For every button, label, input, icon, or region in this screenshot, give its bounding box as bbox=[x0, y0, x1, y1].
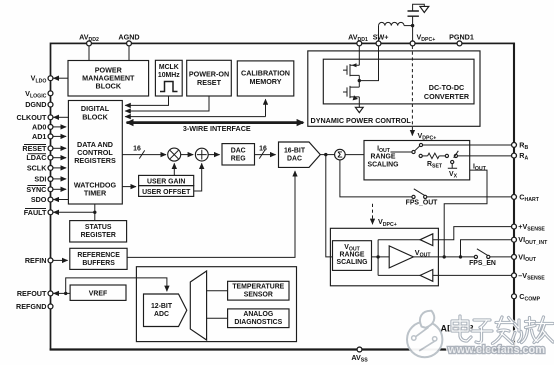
op-amp VOUT driver bbox=[389, 246, 413, 268]
svg-text:BLOCK: BLOCK bbox=[82, 112, 108, 121]
pin -VSENSE bbox=[512, 273, 517, 278]
wire Q1 source to node bbox=[358, 75, 360, 80]
svg-text:16: 16 bbox=[133, 146, 141, 153]
chip border bottom edge (thick) bbox=[50, 348, 515, 350]
reference buffers block bbox=[70, 248, 127, 269]
wire amplifier output bbox=[413, 256, 474, 258]
power management block bbox=[68, 61, 149, 97]
svg-text:10MHz: 10MHz bbox=[158, 72, 180, 79]
svg-text:SCALING: SCALING bbox=[367, 161, 398, 168]
node REFOUT junction bbox=[64, 292, 67, 295]
chip border bbox=[51, 43, 515, 349]
pin LDAC (active low) bbox=[48, 155, 53, 160]
calibration memory block bbox=[237, 61, 293, 96]
buffer +VSENSE (left-pointing) bbox=[420, 234, 433, 246]
svg-text:DIAGNOSTICS: DIAGNOSTICS bbox=[234, 319, 282, 326]
bus width slash 16 bbox=[259, 150, 264, 158]
pin VIOUT bbox=[512, 254, 517, 259]
dashed VDPC+ supply line into iout range scaling bbox=[411, 46, 413, 135]
wire SCLK pin to digital block bbox=[53, 167, 66, 169]
svg-text:BLOCK: BLOCK bbox=[96, 82, 122, 91]
capacitor CDPC bbox=[412, 16, 414, 25]
svg-text:REG: REG bbox=[231, 155, 246, 162]
svg-text:AGND: AGND bbox=[118, 33, 139, 42]
node VX bbox=[451, 160, 454, 163]
node DAC output junction bbox=[324, 153, 327, 156]
svg-text:TIMER: TIMER bbox=[84, 188, 107, 197]
wire AD1 pin to digital block bbox=[53, 135, 66, 137]
bus width slash 16 bbox=[139, 150, 144, 158]
wire switch to RA pin bbox=[458, 155, 515, 157]
wire digital block to user gain/offset bbox=[122, 186, 136, 188]
wire FPS_OUT switch to CHART pin bbox=[427, 196, 514, 198]
svg-text:3-WIRE INTERFACE: 3-WIRE INTERFACE bbox=[183, 124, 251, 133]
watermark (decorative) bbox=[407, 311, 553, 357]
svg-text:ANALOG: ANALOG bbox=[243, 311, 273, 318]
svg-text:ADC: ADC bbox=[154, 311, 169, 318]
svg-text:FAULT: FAULT bbox=[24, 208, 47, 217]
svg-text:AD0: AD0 bbox=[32, 122, 46, 131]
transistor Q1 (high-side FET) bbox=[343, 64, 359, 76]
svg-text:STATUS: STATUS bbox=[85, 224, 112, 231]
sigma adder bbox=[335, 149, 346, 160]
wire MCLK to digital block bbox=[125, 96, 168, 105]
wire user gain to multiplier bbox=[173, 163, 175, 175]
dashed VDPC+ supply line into vout stage bbox=[372, 204, 374, 224]
node FAULT junction bbox=[93, 211, 96, 214]
wire sigma to iout range scaling bbox=[345, 154, 364, 156]
svg-text:REFOUT: REFOUT bbox=[17, 289, 47, 298]
svg-text:RESET: RESET bbox=[197, 78, 222, 87]
wire switch to RB pin bbox=[423, 144, 514, 146]
wire vref node to 12-bit ADC bbox=[66, 278, 167, 294]
resistor RSET with switch contacts bbox=[419, 154, 422, 157]
switch to RA bbox=[454, 154, 457, 157]
svg-text:www.elecfans.com: www.elecfans.com bbox=[447, 344, 545, 356]
svg-text:MCLK: MCLK bbox=[159, 64, 179, 71]
wire SDI pin to digital block bbox=[53, 178, 66, 180]
wire DAC output down to vout range scaling bbox=[326, 155, 333, 257]
ground symbol top bbox=[420, 6, 429, 12]
pin CLKOUT bbox=[48, 115, 53, 120]
pin AVSS bbox=[357, 347, 362, 352]
wire Q2 source to ground bbox=[358, 97, 360, 107]
pin PGND1 bbox=[457, 41, 462, 46]
svg-text:REGISTERS: REGISTERS bbox=[74, 156, 116, 165]
node inductor/cap junction bbox=[411, 24, 414, 27]
12-bit ADC bbox=[144, 294, 187, 327]
svg-text:REFGND: REFGND bbox=[16, 302, 46, 311]
wire REFIN to reference buffers bbox=[53, 259, 68, 261]
svg-text:Σ: Σ bbox=[337, 150, 342, 160]
svg-text:RANGE: RANGE bbox=[371, 154, 396, 161]
wire AVDD1 into DPC bbox=[358, 45, 360, 65]
dc-to-dc converter inner box bbox=[323, 59, 474, 104]
vref block bbox=[70, 285, 126, 300]
svg-text:DAC: DAC bbox=[231, 147, 246, 154]
pin REFIN bbox=[48, 258, 53, 263]
3-wire interface thick bus bbox=[127, 121, 304, 124]
wire mux to temperature sensor bbox=[207, 290, 228, 292]
node amplifier input bbox=[376, 255, 379, 258]
wire SYNC pin to digital block bbox=[53, 188, 66, 190]
diagnostics section box bbox=[136, 267, 296, 342]
pin RB bbox=[512, 142, 517, 147]
wire digital block to CLKOUT pin bbox=[54, 116, 69, 118]
dynamic power control outer box bbox=[308, 51, 480, 126]
svg-text:USER OFFSET: USER OFFSET bbox=[142, 189, 191, 196]
svg-text:USER GAIN: USER GAIN bbox=[147, 178, 185, 185]
svg-text:VREF: VREF bbox=[89, 290, 107, 297]
clock pulse symbol bbox=[160, 82, 178, 92]
wire AGND to power management block bbox=[128, 45, 130, 61]
switch FPS_EN bbox=[474, 255, 477, 258]
wire range scaling to amplifier bbox=[372, 256, 390, 258]
status register block bbox=[70, 221, 127, 242]
wire digital block to SDO pin bbox=[54, 199, 69, 201]
pin FAULT (active low) bbox=[48, 210, 53, 215]
wire user offset to adder bbox=[194, 163, 202, 191]
svg-text:12-BIT: 12-BIT bbox=[151, 303, 173, 310]
wire AVDD2 to power management block bbox=[88, 45, 90, 61]
feedback wire from -VSENSE buffer to -VSENSE pin bbox=[378, 274, 514, 276]
pin +VSENSE bbox=[512, 224, 517, 229]
svg-text:REFIN: REFIN bbox=[25, 256, 47, 265]
switch FPS_OUT bbox=[412, 195, 415, 198]
wire switch to VIOUT pin bbox=[490, 256, 514, 258]
digital block (with data/control registers and watchdog timer) bbox=[68, 101, 122, 205]
feedback node vertical bbox=[377, 240, 379, 276]
svg-text:SCLK: SCLK bbox=[27, 163, 47, 172]
pin SCLK bbox=[48, 165, 53, 170]
wire junction to status register bbox=[94, 212, 96, 220]
temperature sensor block bbox=[228, 281, 289, 300]
svg-text:REFERENCE: REFERENCE bbox=[77, 252, 120, 259]
pin VIOUT_INT bbox=[512, 237, 517, 242]
watermark logo bbox=[407, 322, 442, 357]
16-bit DAC bbox=[279, 142, 321, 167]
pin CHART bbox=[512, 194, 517, 199]
svg-text:16: 16 bbox=[259, 146, 267, 153]
pin DGND bbox=[48, 102, 53, 107]
wire Q2 drain to node bbox=[358, 81, 360, 88]
node VIOUT_INT joins output bbox=[459, 255, 462, 258]
svg-text:LDAC: LDAC bbox=[26, 153, 46, 162]
DAC register bbox=[222, 144, 255, 165]
wire DAC output to sigma adder bbox=[320, 154, 334, 156]
svg-text:TEMPERATURE: TEMPERATURE bbox=[232, 284, 284, 291]
svg-text:REGISTER: REGISTER bbox=[81, 232, 116, 239]
feedback wire from +VSENSE buffer bbox=[378, 227, 514, 240]
multiplier (user gain) bbox=[168, 148, 181, 161]
svg-text:SW+: SW+ bbox=[373, 33, 389, 42]
inductor between SW+ and VDPC+ bbox=[378, 26, 380, 42]
wire digital block to multiplier (16-bit bus) bbox=[122, 154, 166, 156]
chip border right edge (thick) bbox=[513, 43, 515, 350]
wire reference buffers to 16-bit DAC bbox=[127, 171, 295, 257]
analog diagnostics block bbox=[228, 309, 289, 328]
pin CCOMP bbox=[512, 294, 517, 299]
pin AVDD1 bbox=[357, 41, 362, 46]
pin VDPC+ bbox=[410, 41, 415, 46]
wire calibration memory to digital block (bidirectional) bbox=[265, 99, 267, 116]
svg-text:BUFFERS: BUFFERS bbox=[82, 260, 115, 267]
switch to RB bbox=[412, 150, 415, 153]
wire SW+ down to node bbox=[360, 45, 379, 81]
pin AGND bbox=[127, 41, 132, 46]
wire LDAC pin to digital block bbox=[53, 157, 66, 159]
iout range scaling block bbox=[364, 141, 470, 180]
ground symbol DPC bbox=[355, 107, 363, 112]
user gain block bbox=[139, 175, 194, 185]
svg-text:16-BIT: 16-BIT bbox=[284, 147, 306, 154]
node switch midpoint bbox=[358, 79, 361, 82]
svg-text:DGND: DGND bbox=[25, 100, 46, 109]
wire mux to analog diagnostics bbox=[207, 317, 228, 319]
adder (user offset) bbox=[181, 154, 194, 156]
oscillator MCLK 10MHz block bbox=[155, 60, 182, 96]
svg-text:PGND1: PGND1 bbox=[449, 33, 474, 42]
svg-text:SDI: SDI bbox=[34, 175, 46, 184]
wire VIOUT_INT pin bbox=[461, 240, 515, 257]
svg-text:RESET: RESET bbox=[22, 144, 47, 153]
wire adder to DAC register bbox=[208, 154, 219, 156]
pin SDI bbox=[48, 177, 53, 182]
svg-text:SYNC: SYNC bbox=[26, 185, 46, 194]
wire AD0 pin to digital block bbox=[53, 126, 66, 128]
pin RA bbox=[512, 153, 517, 158]
wire vref to REFOUT pin bbox=[54, 292, 71, 294]
pin AD0 bbox=[48, 124, 53, 129]
pin SYNC (active low) bbox=[48, 187, 53, 192]
svg-text:FPS_EN: FPS_EN bbox=[469, 260, 496, 267]
svg-text:CONVERTER: CONVERTER bbox=[424, 92, 470, 101]
wire RESET pin to digital block bbox=[53, 147, 66, 149]
svg-text:CLKOUT: CLKOUT bbox=[16, 113, 47, 122]
wire FAULT from digital block bbox=[94, 204, 96, 212]
pin SDO bbox=[48, 197, 53, 202]
pin VLDO bbox=[48, 76, 53, 81]
wire PMB to VLDO pin bbox=[54, 77, 69, 79]
pin RESET (active low) bbox=[48, 146, 53, 151]
pin REFOUT bbox=[48, 291, 53, 296]
svg-text:AD1: AD1 bbox=[32, 132, 46, 141]
power-on reset block bbox=[187, 60, 232, 96]
wire DAC reg to 16-bit DAC (16-bit bus) bbox=[255, 154, 276, 156]
svg-text:FPS_OUT: FPS_OUT bbox=[406, 200, 439, 207]
wire to RB switch bbox=[391, 151, 412, 153]
node IOUT joins output bbox=[443, 255, 446, 258]
svg-text:SDO: SDO bbox=[31, 195, 47, 204]
svg-text:DYNAMIC POWER CONTROL: DYNAMIC POWER CONTROL bbox=[311, 116, 412, 125]
pin VLOGIC bbox=[48, 91, 53, 96]
user offset block bbox=[139, 186, 194, 197]
pin SW+ bbox=[376, 41, 381, 46]
vout range scaling block bbox=[333, 241, 372, 271]
wire power-on reset to digital block bbox=[125, 96, 209, 111]
pin AD1 bbox=[48, 134, 53, 139]
svg-text:DAC: DAC bbox=[287, 155, 302, 162]
buffer -VSENSE (left-pointing) bbox=[420, 270, 433, 282]
pin REFGND bbox=[48, 304, 53, 309]
svg-text:MEMORY: MEMORY bbox=[249, 77, 281, 86]
svg-text:SENSOR: SENSOR bbox=[244, 292, 273, 299]
analog mux bbox=[190, 271, 206, 340]
wire sigma down to FPS_OUT switch bbox=[340, 160, 412, 197]
pin AVDD2 bbox=[87, 41, 92, 46]
wire VDPC+ up to node bbox=[412, 26, 414, 42]
transistor Q2 (low-side FET) bbox=[343, 86, 359, 98]
vout stage outer box bbox=[330, 228, 438, 285]
svg-text:RANGE: RANGE bbox=[340, 252, 365, 259]
svg-text:SCALING: SCALING bbox=[336, 259, 367, 266]
wire IOUT output of range scaling bbox=[444, 170, 487, 257]
